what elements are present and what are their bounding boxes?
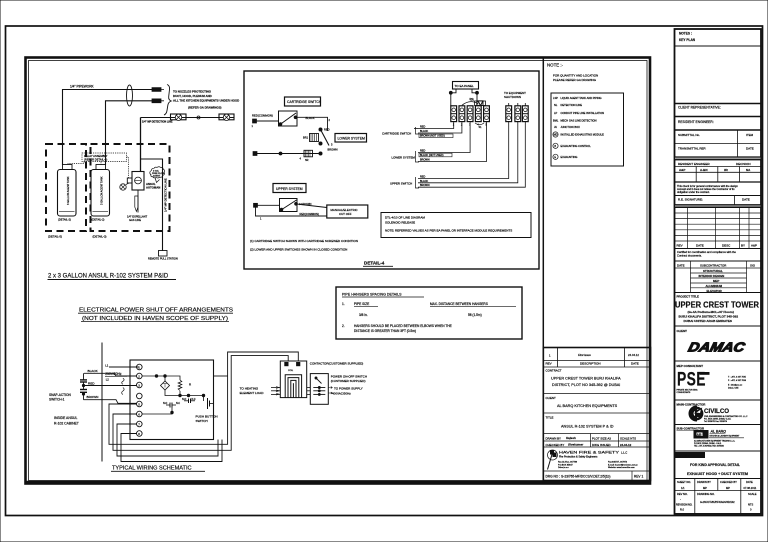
component RN — [300, 150, 313, 162]
mep consultant pse — [675, 364, 762, 400]
decision table — [675, 162, 762, 182]
power on-off switch box — [310, 374, 328, 405]
wire detection line — [141, 117, 235, 119]
disclaimer text — [675, 184, 762, 196]
svg-text:1/4" PIPEWORK: 1/4" PIPEWORK — [70, 85, 95, 89]
svg-text:DETECTION LINE: DETECTION LINE — [561, 103, 583, 107]
svg-text:T : +971 4 337 7595: T : +971 4 337 7595 — [728, 377, 747, 379]
svg-text:TYPICAL WIRING SCHEMATIC: TYPICAL WIRING SCHEMATIC — [112, 466, 192, 472]
group upper switch wires — [390, 122, 525, 188]
wires contactor to switch — [307, 388, 311, 395]
subcontractor table — [675, 261, 762, 293]
fusible link detector 1 — [171, 114, 187, 121]
svg-text:400VAC/50Hz: 400VAC/50Hz — [332, 391, 351, 395]
svg-text:BLACK: BLACK — [306, 116, 315, 120]
svg-text:A&P: A&P — [679, 168, 685, 172]
svg-text:TITLE: TITLE — [546, 416, 554, 420]
svg-text:CIVILCO: CIVILCO — [704, 408, 729, 415]
re signature row — [675, 196, 762, 208]
svg-text:DATE: DATE — [746, 480, 753, 484]
svg-text:(NOT INCLUDED IN HAVEN SCOPE O: (NOT INCLUDED IN HAVEN SCOPE OF SUPPLY) — [82, 316, 228, 322]
svg-text:SWITCH: SWITCH — [196, 419, 208, 423]
wire branch to manual pull — [141, 159, 163, 251]
svg-text:Certified for coordination and: Certified for coordination and complianc… — [677, 250, 736, 254]
svg-text:ANSUL R-102 SYSTEM P & ID: ANSUL R-102 SYSTEM P & ID — [561, 425, 614, 429]
terminal strip TB1 — [451, 106, 490, 129]
cloud callout — [150, 167, 165, 183]
svg-text:BURJ KHALIFA DISTRICT, PLOT 34: BURJ KHALIFA DISTRICT, PLOT 345-392 — [679, 315, 739, 319]
svg-text:DRAWING TITLE:: DRAWING TITLE: — [677, 454, 701, 458]
svg-text:PLOT SIZE A3: PLOT SIZE A3 — [592, 437, 611, 441]
svg-text:Fax:048747, 047974: Fax:048747, 047974 — [608, 462, 628, 464]
svg-text:TO NOZZLES PROTECTING: TO NOZZLES PROTECTING — [173, 90, 212, 94]
svg-text:BROWN: BROWN — [87, 395, 99, 399]
svg-text:230V/50Hz: 230V/50Hz — [105, 372, 122, 376]
detail-4 enclosure — [244, 71, 539, 269]
svg-text:DATE: DATE — [746, 147, 754, 151]
title pid — [48, 274, 177, 280]
svg-text:TRANSMITTAL REF:: TRANSMITTAL REF: — [678, 147, 706, 151]
svg-text:(DETAIL-3): (DETAIL-3) — [93, 235, 107, 239]
sub contractor al barq — [675, 427, 762, 452]
svg-text:CLIENT REPRESENTATIVE:: CLIENT REPRESENTATIVE: — [678, 106, 721, 110]
svg-text:1.: 1. — [342, 302, 345, 306]
fusible link detector 2 — [219, 114, 234, 121]
svg-text:F : +971 4 337 7596: F : +971 4 337 7596 — [728, 380, 747, 382]
svg-text:DETAIL-4: DETAIL-4 — [364, 261, 385, 266]
svg-text:SUBCONTRACTOR: SUBCONTRACTOR — [700, 263, 726, 267]
client damac — [675, 326, 762, 361]
label black — [306, 116, 315, 120]
nozzle note text — [173, 90, 239, 110]
svg-text:RED(COMMON): RED(COMMON) — [252, 114, 273, 118]
dashed enclosure left — [46, 144, 86, 231]
dashed enclosure right — [91, 144, 170, 231]
svg-text:First issue: First issue — [578, 353, 591, 357]
svg-text:NOTE :-: NOTE :- — [547, 63, 564, 68]
bottom table — [675, 479, 762, 514]
svg-text:SHUTDOWN: SHUTDOWN — [504, 95, 521, 99]
svg-text:PIPE SIZE: PIPE SIZE — [354, 302, 369, 306]
svg-text:STRUCTURAL: STRUCTURAL — [703, 269, 723, 273]
svg-text:AUTOMAN: AUTOMAN — [146, 185, 160, 189]
wires upper switch — [256, 202, 327, 221]
svg-text:DAMAC: DAMAC — [687, 340, 747, 355]
group lower system wires — [392, 122, 487, 162]
svg-text:SCALE: SCALE — [748, 492, 757, 496]
svg-text:3 GROWN: 3 GROWN — [299, 202, 312, 206]
svg-text:INSIDE ANSUL: INSIDE ANSUL — [54, 416, 77, 420]
svg-text:BLACK: BLACK — [420, 130, 429, 133]
detail4 note box — [381, 213, 531, 238]
label to equipment shutdown — [504, 91, 526, 99]
svg-text:2.: 2. — [342, 324, 345, 328]
group cartridge switch wires — [382, 122, 462, 138]
diode bridge — [161, 381, 170, 390]
label detail-3 right — [93, 235, 107, 239]
wire black — [84, 369, 137, 380]
svg-text:TO EA PANEL: TO EA PANEL — [455, 84, 475, 88]
svg-text:RESIDENT ENGINEER:: RESIDENT ENGINEER: — [678, 120, 714, 124]
svg-text:2 x 3 GALLON ANSUL R-102 SYSTE: 2 x 3 GALLON ANSUL R-102 SYSTEM P&ID — [48, 274, 169, 280]
svg-text:MD: MD — [554, 134, 558, 137]
submittal row — [675, 130, 762, 144]
svg-text:SIG: SIG — [750, 263, 756, 267]
svg-text:GAS LINE: GAS LINE — [129, 218, 141, 222]
notes detail4 — [250, 239, 358, 252]
svg-text:MEP: MEP — [713, 279, 719, 283]
svg-text:DISTRICT, PLOT NO 345-392 @ DU: DISTRICT, PLOT NO 345-392 @ DUBAI — [552, 383, 620, 387]
svg-text:TO HEATING: TO HEATING — [240, 386, 259, 390]
svg-text:SUBMITTAL No.: SUBMITTAL No. — [678, 133, 700, 137]
svg-text:(REFER DETAIL-4): (REFER DETAIL-4) — [84, 158, 107, 162]
svg-text:P.O.BOX 85847: P.O.BOX 85847 — [558, 464, 573, 466]
wire cartridge to lower — [296, 117, 331, 128]
svg-text:N.O: N.O — [163, 402, 167, 405]
lower system switch blade — [319, 128, 338, 152]
svg-text:DATE: DATE — [696, 244, 704, 248]
curly brace — [164, 85, 171, 116]
svg-text:A&P: A&P — [751, 244, 757, 248]
snap action switch — [49, 380, 87, 402]
svg-text:Contract documents.: Contract documents. — [677, 253, 702, 257]
svg-text:EXHAUSTING CONTROL: EXHAUSTING CONTROL — [561, 144, 592, 148]
svg-text:DECISION: DECISION — [736, 162, 751, 166]
svg-text:R.E. SIGNATURE:: R.E. SIGNATURE: — [678, 198, 703, 202]
svg-text:R.0: R.0 — [680, 508, 685, 512]
svg-text:3 GALLON AGENT TANK: 3 GALLON AGENT TANK — [67, 176, 70, 205]
svg-text:LOWER SYSTEM: LOWER SYSTEM — [338, 137, 365, 141]
svg-text:CHECKED BY: CHECKED BY — [720, 480, 737, 484]
label detail-5 left — [48, 235, 62, 239]
svg-text:CONTRACT: CONTRACT — [546, 369, 562, 373]
svg-text:Dubai,u.a.e: Dubai,u.a.e — [558, 467, 569, 469]
svg-text:AL BARQ: AL BARQ — [710, 430, 727, 434]
svg-text:obligation under the contract.: obligation under the contract. — [677, 190, 710, 194]
cabinet boundary wire — [101, 343, 103, 462]
label typical wiring — [111, 466, 205, 472]
svg-text:DISTANCE IS GREATER THAN 3FT (: DISTANCE IS GREATER THAN 3FT (0.5m) — [354, 329, 416, 333]
terminal strip TB2 — [506, 103, 528, 122]
wire bottom run — [257, 152, 322, 155]
svg-text:BROWN: BROWN — [420, 184, 430, 187]
svg-text:E-mail: havenf@emirates.net.ae: E-mail: havenf@emirates.net.ae — [608, 463, 639, 466]
svg-text:CARTRIDGE SWITCH: CARTRIDGE SWITCH — [287, 100, 322, 104]
svg-text:N.C: N.C — [192, 398, 196, 401]
cap sym2 — [182, 398, 196, 403]
drawing title — [675, 453, 762, 479]
wire brown — [84, 395, 137, 403]
svg-text:DTL-4/10 OF LINE DIAGRAM: DTL-4/10 OF LINE DIAGRAM — [385, 216, 425, 220]
svg-text:KEY PLAN: KEY PLAN — [679, 38, 696, 42]
svg-text:1/4" MP DETECTION LINE: 1/4" MP DETECTION LINE — [142, 121, 173, 124]
svg-text:D1: D1 — [470, 97, 474, 101]
cartridge switch S1 — [279, 111, 298, 126]
svg-text:MP: MP — [703, 486, 707, 490]
svg-text:FOR KIND APPROVAL DETAIL: FOR KIND APPROVAL DETAIL — [690, 463, 741, 467]
svg-text:Rajesh: Rajesh — [566, 436, 576, 440]
wire mid — [165, 390, 205, 397]
label detail-4 — [363, 261, 393, 267]
svg-text:HANGERS SHOULD BE PLACED BETWE: HANGERS SHOULD BE PLACED BETWEEN ELBOWS … — [354, 324, 452, 328]
svg-text:ALUMINIUM: ALUMINIUM — [706, 284, 723, 288]
svg-text:MP: MP — [726, 486, 730, 490]
svg-text:RED: RED — [324, 128, 330, 132]
svg-text:AGENT: AGENT — [153, 175, 161, 178]
svg-text:DATE: DATE — [677, 263, 685, 267]
svg-text:1/4" MP DETECTION LINE: 1/4" MP DETECTION LINE — [164, 178, 168, 212]
svg-text:REMOTE PULL STATION: REMOTE PULL STATION — [148, 257, 178, 261]
wires bottom loops — [109, 352, 298, 462]
svg-text:NOTE: REFERRED VALUES AS PER E: NOTE: REFERRED VALUES AS PER EA PANEL OR… — [385, 229, 512, 233]
svg-text:N.C: N.C — [176, 402, 180, 405]
svg-text:N.O: N.O — [182, 398, 186, 401]
svg-text:NL: NL — [554, 103, 558, 107]
wire red — [84, 381, 137, 385]
relay label dotted box — [82, 153, 127, 162]
terminal 3 — [254, 203, 258, 207]
svg-text:RELAY ASSEMBLY: RELAY ASSEMBLY — [84, 154, 108, 158]
revision history table — [675, 207, 762, 248]
label rotated detection network — [164, 178, 168, 212]
svg-text:JU: JU — [554, 125, 557, 129]
svg-text:E : info@pse.ae: E : info@pse.ae — [728, 385, 743, 387]
label 230v — [105, 364, 139, 395]
label upper system — [273, 184, 306, 193]
svg-text:LP: LP — [554, 111, 557, 115]
note heading — [547, 63, 598, 83]
main contractor civilco — [675, 403, 762, 425]
upper system switch — [280, 199, 298, 212]
diode D1 jumper — [462, 97, 483, 106]
svg-text:REV: REV — [677, 244, 683, 248]
tank T2 — [91, 165, 110, 222]
svg-text:CONTACTOR(CUSTOMER SUPPLIED): CONTACTOR(CUSTOMER SUPPLIED) — [310, 362, 364, 366]
svg-text:24.04.12: 24.04.12 — [620, 443, 632, 447]
svg-text:DUBAI UNITED ARAB EMIRATES: DUBAI UNITED ARAB EMIRATES — [684, 319, 732, 323]
svg-text:EXHAUST HOOD + DUCT SYSTEM: EXHAUST HOOD + DUCT SYSTEM — [687, 472, 748, 476]
svg-text:DWG ISSUED: DWG ISSUED — [592, 443, 611, 447]
svg-text:(DETAIL-2): (DETAIL-2) — [92, 218, 105, 222]
labels power switch — [328, 375, 367, 396]
small circle joint — [197, 116, 200, 119]
svg-text:SOLENOID RELEASE: SOLENOID RELEASE — [385, 221, 415, 225]
svg-text:BML: BML — [553, 119, 559, 123]
svg-text:24.04.12: 24.04.12 — [628, 353, 639, 357]
svg-text:SR: SR — [305, 159, 309, 162]
svg-text:R-102 CABINET: R-102 CABINET — [54, 422, 79, 426]
svg-text:RED(COMMON): RED(COMMON) — [300, 212, 319, 216]
svg-text:CUT OFF: CUT OFF — [339, 212, 352, 216]
wire rect to contactor vertical — [214, 375, 228, 377]
svg-text:PLEASE REFER GA DRAWING: PLEASE REFER GA DRAWING — [553, 78, 597, 82]
svg-text:AL BARQ KITCHEN EQUIPMENTS: AL BARQ KITCHEN EQUIPMENTS — [557, 404, 618, 408]
svg-text:RED: RED — [88, 381, 95, 385]
svg-text:DRAWN BY: DRAWN BY — [697, 480, 711, 484]
terminal 6 — [253, 152, 257, 156]
svg-text:BLACK: BLACK — [420, 180, 429, 183]
svg-text:(REFER GA DRAWINGS): (REFER GA DRAWINGS) — [188, 106, 221, 110]
label contactor — [310, 362, 364, 366]
remote pull station — [148, 251, 178, 261]
svg-text:G-23/UCT-BK/HFS/AGS/SD/102: G-23/UCT-BK/HFS/AGS/SD/102 — [700, 501, 735, 504]
wire pipework line 1 with arrow — [63, 88, 165, 165]
svg-text:Ras Al-Khor, 047789: Ras Al-Khor, 047789 — [558, 461, 578, 464]
coil R — [178, 380, 192, 391]
svg-text:SCALE NTS: SCALE NTS — [620, 437, 636, 441]
svg-text:DATE: DATE — [631, 362, 639, 366]
label ansul automan — [146, 182, 160, 189]
resident engineer row — [675, 120, 762, 130]
label cartridge switch — [285, 97, 322, 106]
key plan cell — [675, 32, 762, 47]
svg-text:DATE: DATE — [742, 198, 750, 202]
svg-text:REV NO.: REV NO. — [677, 492, 688, 496]
svg-text:07.08.2011: 07.08.2011 — [744, 486, 757, 490]
label 1/4 pipework — [70, 85, 95, 89]
svg-text:BROWN (NOT USED): BROWN (NOT USED) — [420, 135, 445, 138]
svg-text:L2: L2 — [106, 377, 110, 381]
svg-text:RED: RED — [420, 176, 425, 179]
svg-text:1/1: 1/1 — [681, 486, 685, 490]
svg-text:REV 1: REV 1 — [634, 475, 643, 479]
svg-text:3 GALLON AGENT TANK: 3 GALLON AGENT TANK — [101, 176, 104, 205]
svg-text:Dubai, UAE: Dubai, UAE — [728, 387, 739, 390]
client representative row — [675, 104, 762, 117]
svg-text:REVISION NO.: REVISION NO. — [676, 504, 693, 507]
svg-text:Website: www.havenfire.com: Website: www.havenfire.com — [608, 466, 635, 469]
project title — [675, 295, 759, 324]
svg-text:BROWN: BROWN — [328, 148, 338, 152]
svg-text:AB: AB — [697, 433, 703, 437]
svg-text:MECH GAS LINE DETECTION: MECH GAS LINE DETECTION — [561, 119, 597, 123]
svg-text:HAVEN FIRE & SAFETY: HAVEN FIRE & SAFETY — [559, 451, 620, 455]
svg-text:5ft (1.5m): 5ft (1.5m) — [468, 313, 482, 317]
transmittal row — [675, 144, 762, 160]
svg-text:ALL THE KITCHEN EQUIPMENTS UND: ALL THE KITCHEN EQUIPMENTS UNDER HOOD — [173, 99, 239, 103]
terminal 1 — [252, 119, 257, 128]
pressure gauge — [120, 183, 129, 190]
svg-text:SNAP-ACTION: SNAP-ACTION — [49, 393, 71, 397]
svg-text:UPPER CREST TOWER BURJ KHALIFA: UPPER CREST TOWER BURJ KHALIFA — [551, 377, 621, 381]
svg-text:DUCT, HOOD, PLENUM AND: DUCT, HOOD, PLENUM AND — [173, 94, 212, 98]
svg-text:BR1: BR1 — [303, 136, 309, 140]
wires ea panel — [449, 89, 478, 106]
svg-text:DESCRIPTION: DESCRIPTION — [580, 362, 601, 366]
svg-text:TEL: +971 4 2676632, FAX: 2676: TEL: +971 4 2676632, FAX: 2676636 — [694, 445, 724, 448]
diode D1 — [471, 98, 486, 106]
terminal circles 1-8 — [137, 364, 143, 436]
contactor contacts — [285, 375, 301, 398]
svg-text:(2) LOWER AND UPPER SWITCHES S: (2) LOWER AND UPPER SWITCHES SHOWN IN CL… — [250, 248, 347, 252]
contactor box — [280, 361, 306, 398]
pipe loop ellipse — [127, 85, 133, 106]
relay coil BR1 — [303, 134, 319, 142]
expellant hose — [127, 190, 148, 222]
title block frame — [675, 29, 762, 514]
svg-text:INSTALLED EXHAUSTING MODULE: INSTALLED EXHAUSTING MODULE — [561, 133, 605, 137]
svg-text:CONSULTANTS: CONSULTANTS — [677, 391, 692, 394]
wire to cartridge switch — [257, 120, 279, 122]
relay box enclosure — [130, 360, 214, 440]
svg-text:RESIDENT ENGINEER: RESIDENT ENGINEER — [678, 162, 710, 166]
svg-text:Fire Protection & Safety Engin: Fire Protection & Safety Engineers — [559, 455, 598, 458]
svg-text:(DETAIL-2): (DETAIL-2) — [58, 218, 71, 222]
svg-text:UPPER SYSTEM: UPPER SYSTEM — [276, 187, 303, 191]
svg-text:PSE: PSE — [677, 368, 706, 390]
wire detection drop — [140, 118, 142, 172]
regulator valve — [127, 172, 144, 191]
wire pipework line 2 with arrow — [106, 99, 165, 165]
label red common — [252, 114, 273, 118]
svg-text:JUNCTION BOX: JUNCTION BOX — [561, 125, 581, 129]
relay internal wiring — [142, 375, 180, 381]
svg-text:PIPE HANGERS SPACING DETAILS: PIPE HANGERS SPACING DETAILS — [342, 293, 402, 297]
heating element wires — [240, 386, 281, 395]
tank T1 — [58, 165, 77, 222]
svg-text:LIQUID AGENT TANK AND PIPING: LIQUID AGENT TANK AND PIPING — [561, 96, 602, 100]
svg-text:DRG NO : G-23/765-MF/DCCS/V: DRG NO : G-23/765-MF/DCCS/V.DET.2/5(1b) — [546, 475, 611, 479]
svg-text:TO POWER SUPPLY: TO POWER SUPPLY — [334, 386, 363, 390]
svg-text:-: - — [680, 498, 681, 501]
label inside cabinet — [54, 416, 79, 426]
svg-text:NTS: NTS — [748, 503, 753, 507]
svg-text:PUSH BUTTON: PUSH BUTTON — [196, 415, 218, 419]
haven logo flag — [548, 450, 558, 470]
svg-text:ELEMENT LOAD: ELEMENT LOAD — [240, 391, 265, 395]
svg-text:DRAWN BY: DRAWN BY — [546, 437, 562, 441]
svg-text:SUB-CONTRACTOR: SUB-CONTRACTOR — [677, 427, 705, 431]
svg-text:MAIN-CONTRACTOR: MAIN-CONTRACTOR — [677, 403, 707, 407]
svg-text:MAX. DISTANCE BETWEEN HANGERS: MAX. DISTANCE BETWEEN HANGERS — [430, 302, 488, 306]
contact NO NC — [142, 402, 180, 414]
svg-text:Tel: 3333075 Fax: 3333074: Tel: 3333075 Fax: 3333074 — [704, 421, 727, 423]
svg-text:UPPER SWITCH: UPPER SWITCH — [390, 182, 412, 186]
svg-text:(DETAIL-5): (DETAIL-5) — [48, 235, 62, 239]
label to ea panel — [453, 82, 479, 90]
svg-text:3/8 in.: 3/8 in. — [359, 313, 368, 317]
label detection line — [142, 121, 173, 124]
svg-text:Sivakumar: Sivakumar — [568, 443, 584, 447]
manual electric cut off box — [327, 205, 368, 218]
svg-text:(1) CARTRIDGE SWITCH SHOWN WIT: (1) CARTRIDGE SWITCH SHOWN WITH CARTRIDG… — [250, 239, 358, 243]
label lower system — [335, 134, 367, 143]
svg-text:CONDUIT PIPE LINE INSTALLATION: CONDUIT PIPE LINE INSTALLATION — [561, 111, 605, 115]
svg-text:SWITCH-1: SWITCH-1 — [49, 398, 65, 402]
svg-text:A-BN: A-BN — [700, 168, 708, 172]
svg-text:ELECTRICAL POWER SHUT OFF ARRA: ELECTRICAL POWER SHUT OFF ARRANGEMENTS — [79, 308, 233, 314]
svg-text:CHECKED BY: CHECKED BY — [546, 443, 565, 447]
svg-text:NOTES :: NOTES : — [679, 32, 692, 36]
svg-text:LSP: LSP — [553, 96, 558, 100]
haven text — [544, 451, 651, 472]
svg-text:REV: REV — [546, 362, 552, 366]
svg-text:L.L.C: L.L.C — [621, 451, 627, 455]
svg-text:DRAWING NO.: DRAWING NO. — [697, 492, 715, 496]
svg-text:PROJECT TITLE: PROJECT TITLE — [677, 295, 700, 299]
svg-text:BY: BY — [741, 244, 745, 248]
svg-text:DESC: DESC — [722, 244, 731, 248]
svg-text:L1: L1 — [105, 364, 109, 368]
push button — [196, 396, 218, 424]
svg-text:COIL: COIL — [288, 370, 294, 372]
svg-text:RED: RED — [420, 126, 425, 129]
svg-text:KITCHEN & LAUNDRY EQUIPMENT: KITCHEN & LAUNDRY EQUIPMENT — [710, 435, 741, 438]
svg-text:CLIENT: CLIENT — [546, 396, 557, 400]
svg-text:RED: RED — [420, 150, 425, 153]
svg-text:BLACK: BLACK — [88, 369, 99, 373]
svg-text:UPPER CREST TOWER: UPPER CREST TOWER — [675, 301, 759, 310]
